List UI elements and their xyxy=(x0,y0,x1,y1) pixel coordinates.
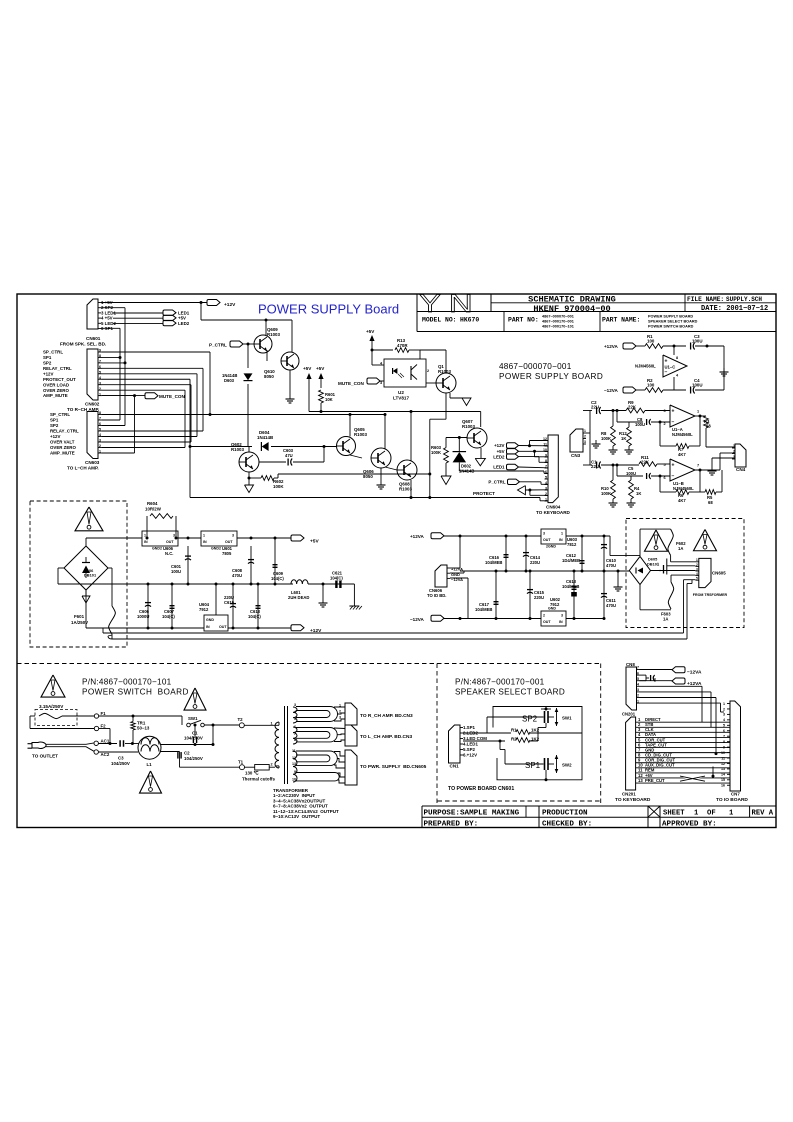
svg-text:LED1: LED1 xyxy=(493,465,505,470)
svg-text:22U: 22U xyxy=(591,464,599,469)
svg-text:OVER VALT: OVER VALT xyxy=(50,440,75,445)
svg-text:1: 1 xyxy=(99,392,101,396)
svg-text:D603: D603 xyxy=(224,378,235,383)
svg-text:PREPARED BY:: PREPARED BY: xyxy=(424,821,479,829)
svg-text:SPEAKER SELECT BOARD: SPEAKER SELECT BOARD xyxy=(648,320,698,324)
svg-text:LTV817: LTV817 xyxy=(393,396,409,401)
svg-text:PURPOSE:SAMPLE MAKING: PURPOSE:SAMPLE MAKING xyxy=(424,810,520,818)
svg-text:1: 1 xyxy=(723,702,725,706)
svg-text:+5V: +5V xyxy=(366,329,375,334)
svg-text:RELAY_CTRL: RELAY_CTRL xyxy=(43,366,72,371)
svg-text:GND: GND xyxy=(548,607,556,611)
svg-text:3: 3 xyxy=(99,439,101,443)
svg-text:8: 8 xyxy=(723,740,725,744)
svg-text:11: 11 xyxy=(721,756,725,760)
svg-text:7: 7 xyxy=(294,732,296,736)
svg-text:DB101: DB101 xyxy=(84,573,97,578)
svg-text:13: 13 xyxy=(721,767,725,771)
svg-text:+12VA: +12VA xyxy=(410,534,425,539)
svg-text:SP_CTRL: SP_CTRL xyxy=(43,350,63,355)
svg-text:2: 2 xyxy=(723,707,725,711)
svg-text:7: 7 xyxy=(99,417,101,421)
svg-text:220U: 220U xyxy=(534,595,544,600)
svg-text:3: 3 xyxy=(584,440,586,444)
svg-text:8050: 8050 xyxy=(264,374,274,379)
svg-text:2GND: 2GND xyxy=(546,545,556,549)
svg-text:C3: C3 xyxy=(118,756,124,761)
svg-text:3: 3 xyxy=(294,703,296,707)
svg-text:1K: 1K xyxy=(621,436,626,441)
svg-text:AMP_MUTE: AMP_MUTE xyxy=(50,451,75,456)
svg-text:6: 6 xyxy=(99,422,101,426)
svg-text:7: 7 xyxy=(697,464,699,468)
svg-text:100U: 100U xyxy=(171,569,181,574)
svg-text:10K: 10K xyxy=(325,397,333,402)
svg-text:12: 12 xyxy=(292,756,296,760)
svg-text:CN201: CN201 xyxy=(622,712,636,717)
svg-text:R604: R604 xyxy=(147,501,158,506)
svg-text:2: 2 xyxy=(584,435,586,439)
svg-text:2: 2 xyxy=(696,563,698,567)
svg-text:1: 1 xyxy=(733,444,735,448)
svg-text:REV A: REV A xyxy=(752,810,774,818)
svg-text:POWER SUPPLY Board: POWER SUPPLY Board xyxy=(258,302,399,317)
svg-text:P/N:4867−000170−001: P/N:4867−000170−001 xyxy=(455,678,545,687)
svg-text:9: 9 xyxy=(723,745,725,749)
svg-text:5: 5 xyxy=(99,371,101,375)
svg-text:GND2: GND2 xyxy=(152,547,162,551)
svg-text:P/N:4867−000170−101: P/N:4867−000170−101 xyxy=(82,678,172,687)
svg-text:10: 10 xyxy=(292,778,296,782)
svg-text:−12VA: −12VA xyxy=(604,388,619,393)
svg-text:CN602: CN602 xyxy=(85,402,100,407)
svg-text:CN1: CN1 xyxy=(450,764,460,769)
svg-text:5: 5 xyxy=(696,577,698,581)
svg-text:APPROVED BY:: APPROVED BY: xyxy=(662,821,717,829)
svg-text:10: 10 xyxy=(721,751,725,755)
svg-text:SW1: SW1 xyxy=(188,716,198,721)
svg-text:CN201: CN201 xyxy=(622,792,636,797)
svg-text:IN: IN xyxy=(203,540,207,544)
svg-text:11: 11 xyxy=(292,749,296,753)
svg-text:7: 7 xyxy=(637,666,639,670)
svg-text:104/250V: 104/250V xyxy=(184,736,203,741)
svg-text:TO KEYBOARD: TO KEYBOARD xyxy=(615,797,651,803)
svg-text:|: | xyxy=(658,562,659,566)
svg-text:LED2: LED2 xyxy=(178,321,190,326)
svg-text:DATE: 2001−07−12: DATE: 2001−07−12 xyxy=(701,305,768,313)
svg-text:TO ID BD.: TO ID BD. xyxy=(427,593,446,598)
svg-text:16: 16 xyxy=(721,784,725,788)
svg-text:1: 1 xyxy=(144,534,146,538)
svg-text:CN604: CN604 xyxy=(546,505,561,510)
svg-text:1: 1 xyxy=(561,532,563,536)
svg-text:4867−000070−001: 4867−000070−001 xyxy=(499,362,572,371)
svg-text:100U: 100U xyxy=(692,339,703,344)
svg-text:2: 2 xyxy=(271,763,273,767)
svg-text:100U: 100U xyxy=(692,383,703,388)
svg-text:1: 1 xyxy=(729,810,734,818)
svg-text:3: 3 xyxy=(637,688,639,692)
svg-text:+: + xyxy=(672,462,675,468)
svg-text:OUT: OUT xyxy=(166,540,174,544)
svg-text:SP1: SP1 xyxy=(50,418,59,423)
svg-text:AMP_MUTE: AMP_MUTE xyxy=(43,393,68,398)
svg-text:2UH DEAD: 2UH DEAD xyxy=(288,595,309,600)
svg-text:1K: 1K xyxy=(636,491,641,496)
svg-text:1: 1 xyxy=(203,534,205,538)
svg-text:NJM4560L: NJM4560L xyxy=(673,486,694,491)
svg-text:5.SP2: 5.SP2 xyxy=(463,747,476,752)
svg-text:4: 4 xyxy=(723,718,725,722)
svg-text:POWER SUPPLY BOARD: POWER SUPPLY BOARD xyxy=(648,315,693,319)
svg-text:104/MEB: 104/MEB xyxy=(562,584,579,589)
svg-text:SCHEMATIC DRAWING: SCHEMATIC DRAWING xyxy=(528,294,616,304)
svg-text:104(C): 104(C) xyxy=(271,576,284,581)
svg-text:R1003: R1003 xyxy=(462,424,475,429)
svg-text:5: 5 xyxy=(664,463,666,467)
svg-text:SUPPLY.SCH: SUPPLY.SCH xyxy=(726,296,762,303)
svg-text:PROTECT: PROTECT xyxy=(473,491,495,496)
svg-text:104/MEB: 104/MEB xyxy=(485,560,502,565)
svg-text:−12VA: −12VA xyxy=(410,617,425,622)
svg-text:OUT: OUT xyxy=(219,625,227,629)
svg-text:1: 1 xyxy=(694,810,699,818)
svg-text:1: 1 xyxy=(584,429,586,433)
svg-text:OF: OF xyxy=(707,810,716,818)
svg-text:3: 3 xyxy=(99,381,101,385)
svg-text:7: 7 xyxy=(723,735,725,739)
svg-text:3.15A/250V: 3.15A/250V xyxy=(39,704,64,709)
svg-text:SW1: SW1 xyxy=(562,716,572,721)
svg-text:5: 5 xyxy=(294,717,296,721)
svg-text:104(C): 104(C) xyxy=(330,576,343,581)
svg-text:+5V: +5V xyxy=(303,366,312,371)
svg-text:FROM SPK. SEL. BD.: FROM SPK. SEL. BD. xyxy=(60,342,106,347)
svg-text:C2: C2 xyxy=(184,751,190,756)
svg-text:MODEL NO:: MODEL NO: xyxy=(422,317,457,324)
svg-text:1D4/MEB: 1D4/MEB xyxy=(562,558,580,563)
svg-text:3: 3 xyxy=(733,455,735,459)
svg-text:CN605: CN605 xyxy=(712,571,726,576)
svg-text:100U: 100U xyxy=(626,471,636,476)
svg-text:SP2: SP2 xyxy=(522,715,538,724)
svg-text:P_CTRL: P_CTRL xyxy=(209,343,227,348)
svg-text:4: 4 xyxy=(294,710,296,714)
svg-text:POWER SWITCH BOARD: POWER SWITCH BOARD xyxy=(82,688,189,697)
svg-text:6: 6 xyxy=(723,729,725,733)
svg-text:4: 4 xyxy=(99,376,101,380)
svg-text:YN: YN xyxy=(419,291,481,318)
svg-text:R1003: R1003 xyxy=(267,332,280,337)
svg-text:5: 5 xyxy=(545,475,547,479)
svg-text:R1003: R1003 xyxy=(354,432,367,437)
svg-text:7912: 7912 xyxy=(199,607,209,612)
svg-text:1.SP1: 1.SP1 xyxy=(463,725,476,730)
svg-text:4: 4 xyxy=(696,572,698,576)
svg-text:4.LED1: 4.LED1 xyxy=(463,742,478,747)
svg-text:−: − xyxy=(665,369,668,375)
svg-text:6: 6 xyxy=(545,470,547,474)
svg-text:100K: 100K xyxy=(601,436,611,441)
svg-text:15: 15 xyxy=(721,778,725,782)
svg-text:3: 3 xyxy=(561,614,563,618)
svg-text:100U: 100U xyxy=(635,422,645,427)
svg-text:50−13: 50−13 xyxy=(137,726,150,731)
svg-text:3.LED COM: 3.LED COM xyxy=(463,736,487,741)
svg-text:GND: GND xyxy=(206,618,214,622)
svg-text:3: 3 xyxy=(664,409,666,413)
svg-text:TO R_CH AMP. BD.CN3: TO R_CH AMP. BD.CN3 xyxy=(360,713,413,719)
svg-text:8: 8 xyxy=(676,356,678,360)
svg-text:+12V: +12V xyxy=(224,302,236,308)
svg-text:SP2: SP2 xyxy=(43,361,52,366)
svg-text:PART NAME:: PART NAME: xyxy=(602,317,640,324)
svg-text:NJM4560L: NJM4560L xyxy=(672,432,693,437)
svg-text:9−10:AC13V OUTPUT: 9−10:AC13V OUTPUT xyxy=(273,814,320,819)
svg-text:CN601: CN601 xyxy=(86,336,101,341)
svg-text:3: 3 xyxy=(696,567,698,571)
svg-text:220U: 220U xyxy=(530,560,540,565)
svg-text:PART NO:: PART NO: xyxy=(508,317,539,324)
svg-text:OUT: OUT xyxy=(225,540,233,544)
svg-text:104/MEB: 104/MEB xyxy=(475,607,492,612)
svg-text:OUT: OUT xyxy=(543,620,551,624)
svg-text:+5V: +5V xyxy=(316,366,325,371)
svg-text:1000U: 1000U xyxy=(137,614,149,619)
svg-text:F1: F1 xyxy=(101,711,107,716)
svg-text:R1003: R1003 xyxy=(231,447,244,452)
svg-text:+: + xyxy=(672,408,675,414)
svg-text:CN603: CN603 xyxy=(85,460,100,465)
svg-text:−: − xyxy=(672,473,675,479)
svg-text:SP2: SP2 xyxy=(50,423,59,428)
svg-text:4: 4 xyxy=(676,374,679,378)
svg-text:1: 1 xyxy=(271,722,273,726)
svg-text:+12V: +12V xyxy=(494,443,504,448)
svg-text:C619: C619 xyxy=(224,600,235,605)
svg-text:OVER ZERO: OVER ZERO xyxy=(50,445,76,450)
svg-text:TO POWER BOARD CN601: TO POWER BOARD CN601 xyxy=(448,786,514,792)
svg-text:CN3: CN3 xyxy=(571,453,581,458)
svg-text:+12V: +12V xyxy=(50,434,60,439)
svg-text:4K7: 4K7 xyxy=(678,498,686,503)
svg-text:+5V: +5V xyxy=(497,449,505,454)
svg-text:6: 6 xyxy=(664,476,666,480)
svg-text:13: 13 xyxy=(292,762,296,766)
svg-text:TO OUTLET: TO OUTLET xyxy=(32,754,58,759)
svg-text:P_CTRL: P_CTRL xyxy=(488,480,505,485)
svg-text:HKENF 970004−00: HKENF 970004−00 xyxy=(533,304,610,314)
svg-text:1: 1 xyxy=(545,497,547,501)
svg-text:68: 68 xyxy=(706,424,711,429)
svg-text:13: 13 xyxy=(638,778,643,783)
svg-text:2: 2 xyxy=(427,369,429,373)
svg-text:4: 4 xyxy=(637,683,639,687)
svg-text:470U: 470U xyxy=(232,573,242,578)
svg-text:U1−C: U1−C xyxy=(665,364,676,369)
svg-text:LED2: LED2 xyxy=(493,454,505,459)
svg-text:2: 2 xyxy=(664,422,666,426)
svg-text:TO KEYBOARD: TO KEYBOARD xyxy=(536,510,571,515)
svg-text:TO L−CH AMP.: TO L−CH AMP. xyxy=(67,466,99,471)
svg-text:3: 3 xyxy=(173,534,175,538)
svg-text:MUTE_CON: MUTE_CON xyxy=(159,394,185,399)
svg-text:OVER LOAD: OVER LOAD xyxy=(43,382,69,387)
svg-text:AC1: AC1 xyxy=(101,739,110,744)
svg-text:SP_CTRL: SP_CTRL xyxy=(50,412,70,417)
svg-text:8050: 8050 xyxy=(363,474,373,479)
svg-text:TO L_CH AMP. BD.CN3: TO L_CH AMP. BD.CN3 xyxy=(360,734,412,740)
svg-text:IN: IN xyxy=(559,538,563,542)
svg-text:22K: 22K xyxy=(628,405,637,410)
svg-text:SHEET: SHEET xyxy=(663,810,685,818)
svg-text:TO PWR. SUPPLY BD.CN605: TO PWR. SUPPLY BD.CN605 xyxy=(360,764,427,770)
svg-text:100K: 100K xyxy=(431,450,441,455)
svg-text:POWER SWITCH BOARD: POWER SWITCH BOARD xyxy=(648,325,694,329)
svg-text:FILE NAME:: FILE NAME: xyxy=(687,296,724,303)
svg-text:+: + xyxy=(659,569,661,573)
svg-text:4867−000070−001: 4867−000070−001 xyxy=(542,315,574,319)
svg-text:4K7: 4K7 xyxy=(678,452,686,457)
svg-text:RELAY_CTRL: RELAY_CTRL xyxy=(50,429,79,434)
svg-text:−: − xyxy=(672,419,675,425)
svg-text:U2: U2 xyxy=(398,390,404,395)
svg-text:IN: IN xyxy=(144,540,148,544)
svg-text:SW2: SW2 xyxy=(562,763,572,768)
svg-text:2: 2 xyxy=(99,387,101,391)
svg-text:T1: T1 xyxy=(238,760,244,765)
svg-text:IN: IN xyxy=(206,625,210,629)
svg-text:4867−000170−101: 4867−000170−101 xyxy=(542,325,574,329)
svg-text:SP1: SP1 xyxy=(43,355,52,360)
svg-text:104(C): 104(C) xyxy=(162,614,175,619)
svg-text:R1003: R1003 xyxy=(399,487,412,492)
svg-text:CN4: CN4 xyxy=(736,467,746,472)
svg-text:10R/2W: 10R/2W xyxy=(145,507,162,512)
svg-text:8: 8 xyxy=(99,354,101,358)
svg-text:AC2: AC2 xyxy=(101,752,110,757)
svg-text:6: 6 xyxy=(637,671,639,675)
svg-text:+5V: +5V xyxy=(310,539,319,545)
svg-text:22U: 22U xyxy=(591,405,599,410)
svg-text:68: 68 xyxy=(708,500,713,505)
svg-text:PRODUCTION: PRODUCTION xyxy=(542,810,588,818)
svg-text:IN: IN xyxy=(559,620,563,624)
svg-text:MUTE_CON: MUTE_CON xyxy=(338,381,364,386)
svg-text:7812: 7812 xyxy=(567,542,577,547)
svg-text:CN7: CN7 xyxy=(731,792,740,797)
svg-text:4: 4 xyxy=(99,433,101,437)
svg-text:5: 5 xyxy=(637,677,639,681)
svg-text:1: 1 xyxy=(637,699,639,703)
svg-text:3: 3 xyxy=(380,381,382,385)
svg-text:PRE_CUT: PRE_CUT xyxy=(645,778,665,783)
svg-text:8: 8 xyxy=(99,411,101,415)
svg-text:7805: 7805 xyxy=(222,551,232,556)
svg-text:FROM TRSFORMER: FROM TRSFORMER xyxy=(693,593,728,597)
svg-text:TO IO BOARD: TO IO BOARD xyxy=(716,797,748,803)
svg-text:CN8: CN8 xyxy=(626,662,635,667)
svg-text:F2: F2 xyxy=(101,724,107,729)
svg-text:12: 12 xyxy=(721,762,725,766)
svg-text:104(C): 104(C) xyxy=(248,614,261,619)
svg-text:4867−000170−001: 4867−000170−001 xyxy=(542,320,574,324)
svg-text:R1003: R1003 xyxy=(438,369,451,374)
svg-text:NJM4560L: NJM4560L xyxy=(635,364,656,369)
svg-text:OVER ZERO: OVER ZERO xyxy=(43,388,69,393)
svg-text:2: 2 xyxy=(99,444,101,448)
svg-text:PROTECT_OUT: PROTECT_OUT xyxy=(43,377,76,382)
svg-text:−12VA: −12VA xyxy=(687,670,702,676)
svg-text:+12VA: +12VA xyxy=(604,344,619,349)
svg-text:470U: 470U xyxy=(606,563,616,568)
svg-text:1A: 1A xyxy=(663,617,668,622)
svg-text:7912: 7912 xyxy=(550,602,560,607)
svg-text:47U: 47U xyxy=(285,453,293,458)
svg-text:SPEAKER SELECT BOARD: SPEAKER SELECT BOARD xyxy=(455,688,565,697)
svg-text:1: 1 xyxy=(696,558,698,562)
svg-text:9: 9 xyxy=(294,770,296,774)
svg-text:1A: 1A xyxy=(678,546,683,551)
svg-text:+12V: +12V xyxy=(43,371,53,376)
svg-text:7: 7 xyxy=(99,360,101,364)
svg-text:470R: 470R xyxy=(397,343,408,348)
svg-text:100K: 100K xyxy=(601,491,611,496)
svg-text:1N414B: 1N414B xyxy=(257,435,273,440)
svg-text:GND2: GND2 xyxy=(211,547,221,551)
svg-text:CHECKED BY:: CHECKED BY: xyxy=(542,821,592,829)
svg-text:F601: F601 xyxy=(74,614,85,619)
svg-text:5: 5 xyxy=(99,428,101,432)
svg-text:104/250V: 104/250V xyxy=(111,761,130,766)
svg-text:2: 2 xyxy=(543,614,545,618)
svg-text:6: 6 xyxy=(294,725,296,729)
svg-text:104/250V: 104/250V xyxy=(184,756,203,761)
svg-text:T2: T2 xyxy=(238,717,244,722)
svg-text:100: 100 xyxy=(647,383,655,388)
svg-text:POWER SUPPLY BOARD: POWER SUPPLY BOARD xyxy=(499,372,603,381)
svg-text:2: 2 xyxy=(637,694,639,698)
svg-text:9: 9 xyxy=(99,349,101,353)
svg-text:6.+12V: 6.+12V xyxy=(463,753,477,758)
svg-text:SP1: SP1 xyxy=(525,761,541,770)
svg-text:3: 3 xyxy=(232,534,234,538)
svg-text:22K: 22K xyxy=(641,460,650,465)
svg-text:100: 100 xyxy=(647,339,655,344)
svg-text:L1: L1 xyxy=(147,762,153,767)
svg-text:5: 5 xyxy=(723,724,725,728)
svg-text:8: 8 xyxy=(294,738,296,742)
svg-text:100K: 100K xyxy=(273,484,284,489)
svg-text:130 ℃: 130 ℃ xyxy=(245,771,259,776)
svg-text:3: 3 xyxy=(543,532,545,536)
svg-text:470U: 470U xyxy=(606,603,616,608)
svg-text:OUT: OUT xyxy=(543,538,551,542)
svg-text:N.C.: N.C. xyxy=(165,551,173,556)
svg-text:Thermal cutoffs: Thermal cutoffs xyxy=(242,777,275,782)
svg-text:14: 14 xyxy=(721,773,725,777)
svg-text:1: 1 xyxy=(99,450,101,454)
svg-text:1: 1 xyxy=(697,410,699,414)
svg-text:HK670: HK670 xyxy=(460,317,479,324)
svg-text:3: 3 xyxy=(723,713,725,717)
svg-text:6: 6 xyxy=(99,365,101,369)
